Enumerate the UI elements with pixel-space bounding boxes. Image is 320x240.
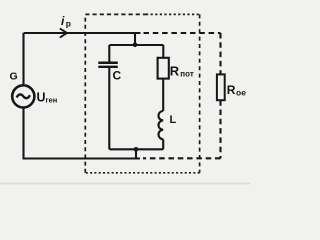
- dashed equivalent branch: right upper: [219, 33, 221, 74]
- dashed box: top edge right part: [146, 13, 200, 15]
- svg-text:R: R: [227, 83, 236, 97]
- node dot bottom: [134, 147, 139, 152]
- wire: left vertical (bottom section): [22, 107, 24, 158]
- generator G circle: [12, 85, 34, 107]
- svg-text:G: G: [10, 71, 18, 83]
- svg-text:ген: ген: [46, 96, 58, 105]
- dashed box (resonant tank boundary): top edge left part: [85, 13, 146, 15]
- wire: C branch upper: [108, 45, 110, 62]
- wire: top horizontal: [24, 32, 141, 34]
- dashed equivalent branch: top: [144, 32, 221, 34]
- scan artifact line bottom: [0, 183, 250, 185]
- svg-text:R: R: [170, 64, 180, 79]
- wire: R to L: [162, 79, 164, 111]
- generator sine symbol: [17, 94, 30, 98]
- svg-text:пот: пот: [180, 70, 194, 79]
- wire: R branch upper: [162, 45, 164, 58]
- inductor L coil: [158, 111, 163, 139]
- svg-text:L: L: [170, 114, 177, 126]
- dashed equivalent branch: right lower: [219, 100, 221, 158]
- node: junction vertical from top wire: [134, 33, 136, 45]
- resistor R_oe: [217, 74, 225, 100]
- wire: bottom horizontal: [23, 157, 141, 159]
- wire: left vertical (top section): [22, 33, 24, 86]
- dashed box: left edge: [84, 14, 86, 172]
- wire: inner bottom node: [109, 148, 163, 150]
- dashed box: right edge: [199, 14, 201, 172]
- wire: junction vertical to bottom wire: [135, 149, 137, 158]
- svg-text:p: p: [66, 19, 71, 29]
- wire: L lower: [162, 139, 164, 149]
- dashed box: bottom edge: [85, 172, 199, 174]
- svg-text:C: C: [113, 69, 122, 83]
- dashed equivalent branch: bottom: [143, 157, 221, 159]
- node dot top: [133, 43, 138, 48]
- svg-text:ое: ое: [236, 88, 246, 98]
- svg-text:U: U: [37, 91, 46, 105]
- resistor R_pot: [158, 58, 169, 79]
- wire: inner top node: [109, 44, 163, 46]
- wire: C branch lower: [108, 68, 110, 149]
- capacitor C plates: [98, 61, 118, 64]
- arrow i_p on top wire: [61, 29, 68, 37]
